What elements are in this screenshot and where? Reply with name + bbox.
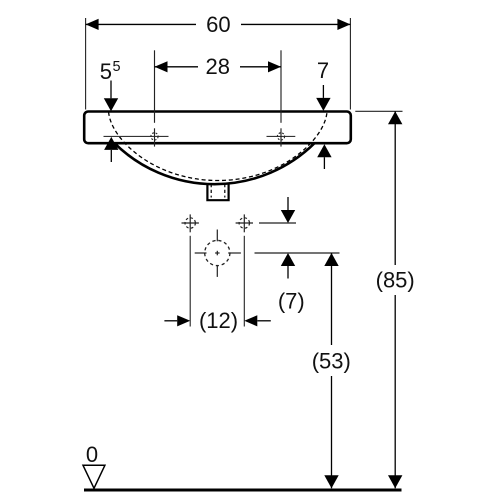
dim 5.5 <box>100 59 121 162</box>
floor line <box>84 489 402 492</box>
tap hole axis line <box>104 135 169 137</box>
dim (53) <box>255 253 356 488</box>
basin deck <box>84 112 351 144</box>
drain outlet circle <box>195 230 241 277</box>
drain stub <box>207 184 228 200</box>
svg-text:28: 28 <box>206 54 230 79</box>
drain stub hidden edges <box>210 184 212 198</box>
svg-text:(53): (53) <box>312 348 351 373</box>
dim (7) <box>259 197 305 313</box>
fixing hole left <box>182 214 199 326</box>
datum 0 <box>83 442 105 488</box>
fixing hole right <box>236 214 253 326</box>
svg-text:5: 5 <box>100 59 112 84</box>
svg-text:60: 60 <box>206 12 230 37</box>
svg-text:0: 0 <box>86 442 98 467</box>
svg-text:(12): (12) <box>199 308 238 333</box>
dim 28 <box>155 54 282 79</box>
bowl inner curve hidden <box>109 112 327 181</box>
tap hole right <box>277 50 284 146</box>
svg-text:7: 7 <box>317 58 329 83</box>
dim 60 <box>86 12 351 110</box>
svg-text:5: 5 <box>113 59 121 75</box>
dim (85) <box>355 111 419 488</box>
svg-text:(7): (7) <box>278 288 305 313</box>
dim (12) <box>164 308 270 333</box>
svg-text:(85): (85) <box>376 267 415 292</box>
tap hole left <box>151 50 158 146</box>
bowl outer curve <box>115 143 315 184</box>
dim 7 <box>316 58 331 169</box>
